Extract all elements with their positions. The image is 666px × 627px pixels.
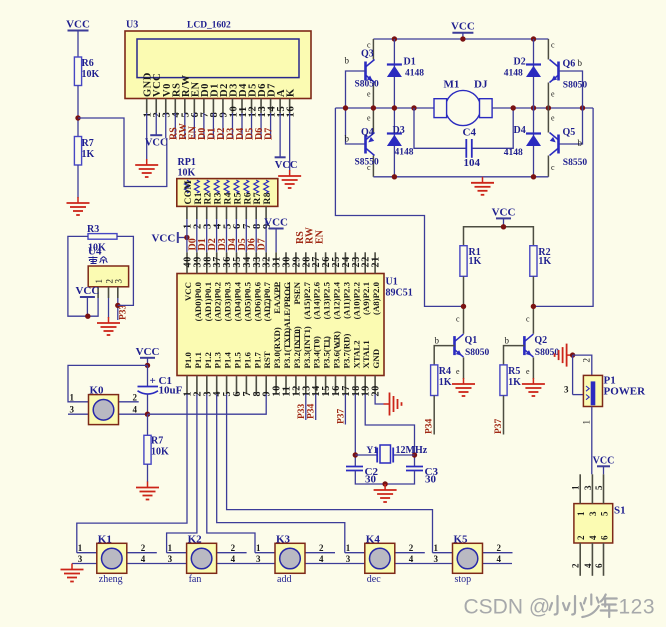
svg-text:e: e [367, 114, 371, 123]
svg-text:2: 2 [582, 358, 592, 363]
svg-text:VCC: VCC [264, 217, 288, 229]
svg-text:e: e [456, 367, 460, 376]
wire R7 to ground [77, 165, 79, 198]
RP1 pin 9 R8 [262, 180, 273, 229]
svg-text:10K: 10K [82, 69, 100, 80]
U1 pin 1 P1.0 [183, 352, 194, 397]
svg-text:b: b [578, 58, 583, 68]
svg-text:dec: dec [367, 574, 381, 585]
svg-text:1: 1 [346, 543, 351, 553]
svg-text:R5: R5 [233, 192, 243, 204]
svg-text:4148: 4148 [405, 69, 424, 79]
svg-text:3: 3 [114, 279, 124, 284]
svg-text:(A8)P2.0: (A8)P2.0 [371, 281, 381, 315]
svg-text:2: 2 [231, 543, 236, 553]
wire R1 to Q1 collector [463, 276, 465, 334]
U1 pin 11 P3.1(TXD) [282, 328, 293, 397]
U1 pin 15 P3.5(T1) [321, 336, 332, 397]
S1 pin 3 top [583, 474, 598, 516]
svg-text:P3.3(INT1): P3.3(INT1) [302, 326, 312, 368]
wire key bottom chain [72, 563, 512, 565]
wire LCD pin 6 stub / net label EN [187, 113, 198, 140]
svg-text:GND: GND [371, 349, 381, 369]
svg-text:4148: 4148 [504, 69, 523, 79]
wire R7 to ground [147, 464, 149, 482]
svg-text:S8550: S8550 [563, 158, 588, 168]
pushbutton K0 [70, 385, 138, 425]
pushbutton K4 [346, 533, 414, 585]
svg-text:R4: R4 [439, 366, 451, 377]
svg-text:1: 1 [168, 543, 173, 553]
svg-text:P3.2(INT0): P3.2(INT0) [292, 326, 302, 368]
RP1 pin 7 R6 [242, 180, 253, 229]
svg-text:4: 4 [133, 405, 138, 415]
svg-text:21: 21 [371, 256, 382, 268]
svg-text:R7: R7 [151, 436, 163, 447]
svg-text:K4: K4 [366, 533, 381, 545]
wire U4 pin3 net [117, 298, 119, 320]
node mid rail D2D4 [531, 105, 536, 110]
U1 pin 29 PSEN [291, 252, 302, 304]
U1 pin 31 EA/VPP [272, 252, 283, 313]
wire R3 right to U4 pin3 [117, 236, 133, 305]
node bottom rail D4 [531, 174, 536, 179]
svg-text:(AD6)P0.6: (AD6)P0.6 [252, 281, 262, 321]
svg-text:P3.1(TXD): P3.1(TXD) [282, 328, 292, 369]
wire LCD pin 10 stub / net label D3 [225, 113, 236, 140]
diode D4 4148 [533, 108, 535, 177]
svg-text:U3: U3 [126, 20, 138, 31]
svg-text:P1.2: P1.2 [203, 352, 213, 369]
power VCC at K0 [136, 346, 160, 366]
wire LCD pin 4 stub / net label RS [168, 113, 179, 140]
U1 pin 27 (A14)P2.6 [311, 252, 322, 319]
U1 pin 28 (A15)P2.7 [301, 252, 312, 319]
svg-text:1K: 1K [469, 256, 482, 267]
svg-text:ALE/PROG: ALE/PROG [282, 282, 292, 328]
svg-text:P37: P37 [336, 408, 346, 424]
svg-text:D3: D3 [393, 125, 405, 136]
wire RP1 pin 2 to U1 [196, 219, 198, 252]
svg-text:K1: K1 [98, 533, 112, 545]
svg-text:XTAL1: XTAL1 [361, 340, 371, 368]
ground H-bridge [471, 177, 494, 195]
wire U1 pin5 P1.4 to K5 [227, 394, 433, 553]
svg-text:S1: S1 [614, 505, 626, 517]
wire P1 pin2 [573, 355, 592, 375]
svg-text:(AD3)P0.3: (AD3)P0.3 [223, 281, 233, 321]
transistor Q3 S8050 [366, 60, 375, 83]
svg-text:c: c [456, 315, 460, 324]
wire K5 pin1 stub [433, 552, 453, 554]
wire mid rail right [492, 107, 593, 109]
svg-text:VCC: VCC [183, 282, 193, 301]
RP1 pin 4 R3 [212, 180, 223, 229]
node Q2 collector [531, 304, 536, 309]
diode D3 4148 [393, 108, 395, 177]
svg-text:P3.5(T1): P3.5(T1) [322, 336, 332, 369]
U1 pin 10 P3.0(RXD) [272, 327, 283, 396]
svg-text:1K: 1K [439, 377, 452, 388]
svg-text:P1.7: P1.7 [252, 352, 262, 369]
resistor R3 10K [88, 234, 117, 240]
U1 pin 6 P1.5 [232, 352, 243, 397]
svg-text:(AD5)P0.5: (AD5)P0.5 [242, 281, 252, 321]
wire driver VCC rail [464, 227, 534, 246]
svg-text:CSDN @: CSDN @ [464, 596, 551, 619]
svg-text:6: 6 [594, 563, 604, 568]
svg-text:C4: C4 [463, 127, 477, 139]
node U4 pin3 [115, 303, 120, 308]
svg-text:Q4: Q4 [361, 127, 374, 138]
svg-text:PSEN: PSEN [292, 281, 302, 304]
svg-text:R1: R1 [194, 192, 204, 204]
svg-text:4: 4 [497, 554, 502, 564]
LCD pin 6 EN [190, 81, 201, 117]
node mid rail D1D3 [392, 105, 397, 110]
svg-text:10K: 10K [178, 168, 196, 179]
svg-text:POWER: POWER [604, 386, 647, 398]
svg-text:3: 3 [78, 554, 83, 564]
LCD pin 3 V0 [162, 83, 173, 117]
svg-text:(AD4)P0.4: (AD4)P0.4 [233, 281, 243, 321]
ground Q2 emitter [522, 378, 545, 396]
RP1 pin 5 R4 [222, 180, 233, 229]
ground Q1 emitter [452, 378, 475, 396]
svg-text:P3.0(RXD): P3.0(RXD) [272, 327, 282, 368]
svg-text:VCC: VCC [75, 285, 99, 297]
svg-text:123: 123 [619, 596, 656, 619]
U1 pin 26 (A13)P2.5 [321, 252, 332, 319]
svg-text:P3.6(WR): P3.6(WR) [332, 331, 342, 368]
svg-text:P33: P33 [297, 403, 307, 419]
S1 pin 6 bottom [594, 535, 609, 576]
U1 pin 33 (AD6)P0.6 [252, 252, 263, 321]
svg-text:K5: K5 [454, 533, 469, 545]
wire R4 to net P34 [433, 396, 435, 435]
svg-text:P1.0: P1.0 [183, 352, 193, 369]
svg-text:R5: R5 [508, 366, 520, 377]
wire LCD pin 5 stub / net label RW [178, 113, 189, 140]
svg-text:30: 30 [425, 474, 437, 486]
svg-text:P3.4(T0): P3.4(T0) [312, 336, 322, 369]
wire Q3 Q4 base link [346, 71, 366, 144]
svg-text:R8: R8 [263, 192, 273, 204]
svg-text:1: 1 [571, 485, 581, 490]
svg-text:4148: 4148 [504, 148, 523, 158]
diode D1 4148 [393, 39, 395, 108]
svg-text:VCC: VCC [593, 455, 615, 466]
svg-text:stop: stop [455, 574, 472, 585]
wire H-bridge bottom rail [373, 176, 548, 178]
LCD pin 11 D4 [238, 83, 249, 118]
U1 pin 38 (AD1)P0.1 [202, 252, 213, 321]
wire H-bridge top rail [373, 38, 548, 40]
svg-text:zheng: zheng [99, 574, 123, 585]
node top rail D1 [392, 36, 397, 41]
LCD pin 9 D2 [219, 83, 230, 117]
wire LCD pin 14 stub / net label D7 [264, 113, 275, 140]
wire RP1 pin 9 to U1 [265, 219, 267, 252]
svg-text:Q2: Q2 [534, 335, 547, 346]
motor M1 DJ [434, 79, 492, 126]
svg-text:VCC: VCC [151, 233, 175, 245]
wire RP1 pin 5 to U1 [226, 219, 228, 252]
watermark chinese glyphs [550, 595, 617, 618]
node V0 divider junction [75, 115, 80, 120]
svg-text:S8050: S8050 [535, 348, 560, 358]
wire P1 pin3 [572, 355, 574, 395]
svg-text:Q1: Q1 [465, 335, 478, 346]
ground below crystal caps [374, 484, 397, 502]
svg-text:VCC: VCC [492, 206, 516, 218]
node crystal ground [382, 481, 387, 486]
power VCC (LCD contrast divider) [66, 19, 90, 58]
svg-text:1: 1 [78, 543, 83, 553]
LCD pin 12 D5 [247, 83, 258, 117]
svg-text:VCC: VCC [451, 21, 475, 33]
power VCC at LCD pin15 [275, 157, 298, 171]
wire R6 to R7 [77, 86, 79, 137]
svg-text:e: e [526, 367, 530, 376]
svg-text:c: c [526, 315, 530, 324]
hall sensor U4 body [88, 246, 129, 287]
node mid rail C4 [411, 105, 416, 110]
wire U1 pin17 stub / net label P37 [344, 394, 346, 424]
node top rail D2 [531, 36, 536, 41]
LCD pin 4 RS [171, 83, 182, 118]
wire Q1 emitter to ground [463, 357, 465, 379]
transistor Q6 S8050 [550, 60, 559, 83]
ground U4 pin2 [97, 317, 120, 335]
power VCC H-bridge [451, 21, 475, 39]
RP1 pin 8 R7 [252, 180, 263, 229]
svg-text:e: e [551, 114, 555, 123]
svg-text:R3: R3 [87, 224, 99, 235]
transistor Q4 S8550 [366, 133, 375, 156]
svg-text:LCD_1602: LCD_1602 [187, 21, 231, 31]
wire RP1 pin 8 to U1 [255, 219, 257, 252]
svg-text:RST: RST [262, 351, 272, 368]
wire right drive down to Q2 [533, 108, 593, 306]
U1 pin 24 (A11)P2.3 [341, 252, 352, 319]
svg-text:4148: 4148 [395, 148, 414, 158]
node top rail VCC [460, 36, 465, 41]
wire K1 pin2 stub [127, 552, 157, 554]
svg-text:2: 2 [576, 535, 586, 540]
svg-text:1: 1 [256, 543, 261, 553]
svg-text:(A12)P2.4: (A12)P2.4 [332, 281, 342, 319]
svg-text:fan: fan [189, 574, 202, 585]
wire LCD pin16 K to ground [289, 113, 291, 171]
svg-text:P34: P34 [425, 418, 435, 434]
pushbutton K2 [168, 533, 236, 585]
svg-text:3: 3 [168, 554, 173, 564]
svg-text:D1: D1 [404, 57, 416, 68]
RP1 pin 3 R2 [203, 180, 214, 229]
wire Q5 emitter [547, 156, 549, 177]
U1 pin 3 P1.2 [202, 352, 213, 397]
svg-text:(A10)P2.2: (A10)P2.2 [351, 281, 361, 319]
ground at LCD pin1 [135, 159, 158, 177]
svg-text:(A15)P2.7: (A15)P2.7 [302, 281, 312, 319]
wire U1 pin2 P1.1 to K2 [167, 394, 197, 553]
wire RST node to U1 pin9 [148, 394, 267, 414]
svg-text:Q6: Q6 [563, 59, 576, 70]
S1 pin 5 top [594, 474, 609, 516]
svg-text:R6: R6 [243, 192, 253, 204]
svg-text:2: 2 [571, 563, 581, 568]
wire K3 pin2 stub [305, 552, 335, 554]
svg-text:b: b [345, 56, 350, 66]
svg-text:D7: D7 [264, 128, 275, 140]
svg-text:1K: 1K [508, 377, 521, 388]
svg-text:(A14)P2.6: (A14)P2.6 [312, 281, 322, 319]
svg-text:b: b [578, 138, 583, 148]
svg-text:1: 1 [70, 392, 75, 402]
svg-text:1: 1 [576, 511, 586, 516]
svg-text:3: 3 [434, 554, 439, 564]
svg-text:2: 2 [141, 543, 146, 553]
svg-text:R6: R6 [82, 58, 94, 69]
U1 pin 8 P1.7 [252, 352, 263, 397]
wire R5 to net P37 [503, 396, 505, 435]
wire LCD pin1 GND down [146, 113, 148, 160]
svg-text:P34: P34 [307, 403, 317, 419]
svg-text:4: 4 [588, 535, 598, 540]
node mid rail base r [580, 105, 585, 110]
U1 pin 19 XTAL1 [361, 340, 372, 396]
U1 pin 30 ALE/PROG [282, 252, 293, 328]
wire Q3 emitter to mid rail [372, 83, 374, 109]
svg-text:VCC: VCC [136, 346, 160, 358]
svg-text:e: e [367, 90, 371, 99]
svg-text:S8050: S8050 [355, 80, 380, 90]
wire Q6 collector [547, 39, 549, 60]
crystal Y1 12MHz [355, 445, 427, 463]
svg-text:VCC: VCC [275, 160, 298, 171]
LCD pin 14 D7 [266, 83, 277, 117]
node mid rail base [343, 105, 348, 110]
svg-text:D2: D2 [514, 57, 526, 68]
wire LCD pin 13 stub / net label D6 [254, 113, 265, 140]
wire U1 pin1 P1.0 to K1 [77, 394, 187, 553]
svg-text:2: 2 [133, 392, 138, 402]
U1 pin name overlines [270, 282, 339, 347]
resistor R7 1K [74, 137, 81, 166]
svg-text:6: 6 [599, 535, 609, 540]
capacitor C4 104 [414, 108, 513, 169]
power VCC at S1 [593, 455, 615, 474]
wire Q6 Q5 base link [559, 71, 583, 144]
svg-text:16: 16 [285, 105, 296, 117]
wire mid rail left [335, 107, 434, 109]
LCD pin 2 VCC [152, 73, 163, 118]
U1 pin 39 (AD0)P0.0 [192, 252, 203, 321]
wire K3 pin1 stub [255, 552, 275, 554]
svg-text:Q3: Q3 [361, 49, 374, 60]
svg-text:VCC: VCC [145, 138, 168, 149]
U1 pin 12 P3.2(INT0) [291, 326, 302, 396]
power VCC at U1 pin31 EA/VPP [264, 217, 288, 253]
power VCC at LCD pin2 [145, 135, 168, 149]
U1 pin 21 (A8)P2.0 [371, 252, 382, 315]
RP1 pin 6 R5 [232, 180, 243, 229]
wire K5 pin2 stub [483, 552, 513, 554]
svg-text:104: 104 [464, 157, 481, 169]
svg-text:3: 3 [583, 485, 593, 490]
resistor R1 1K [460, 246, 467, 277]
wire RP1 pin 6 to U1 [235, 219, 237, 252]
ground at P1 [555, 344, 573, 367]
svg-text:P1.6: P1.6 [242, 352, 252, 369]
U1 pin 18 XTAL2 [351, 340, 362, 397]
svg-text:S8050: S8050 [465, 348, 490, 358]
svg-text:P3.7(RD): P3.7(RD) [341, 333, 351, 368]
resistor R5 1K [500, 365, 507, 396]
svg-text:c: c [551, 163, 555, 172]
transistor Q5 S8550 [550, 133, 559, 156]
wire U4 pin2 to ground [108, 298, 110, 318]
svg-text:4: 4 [409, 554, 414, 564]
LCD pin 8 D1 [209, 83, 220, 117]
wire Q2 base to R5 [504, 346, 525, 365]
wire R3 left to VCC node [68, 236, 88, 316]
wire K0 pin4 to RST node [118, 413, 147, 415]
node mid rail C4r [511, 105, 516, 110]
RP1 pin 1 COM [183, 180, 194, 229]
capacitor C2 30 [346, 466, 378, 486]
svg-text:(A9)P2.1: (A9)P2.1 [361, 282, 371, 315]
svg-text:D4: D4 [514, 125, 526, 136]
connector P1 POWER body [583, 375, 646, 407]
resistor pack RP1 10K body [177, 179, 278, 207]
svg-text:3: 3 [346, 554, 351, 564]
wire Q3 collector [372, 39, 374, 60]
svg-text:R4: R4 [224, 192, 234, 204]
resistor R4 1K [431, 365, 438, 396]
svg-text:e: e [551, 90, 555, 99]
svg-text:(AD1)P0.1: (AD1)P0.1 [203, 282, 213, 321]
wire K1 pin1 stub [77, 552, 97, 554]
LCD pin 7 D0 [200, 83, 211, 117]
wire divider to LCD V0 pin [78, 118, 167, 187]
RP1 pin 2 R1 [193, 180, 204, 229]
ground below R7 [67, 197, 90, 215]
U1 pin 2 P1.1 [192, 352, 203, 396]
node U4 VCC junction [85, 314, 90, 319]
svg-text:12MHz: 12MHz [396, 445, 428, 456]
svg-text:P1.3: P1.3 [213, 352, 223, 369]
svg-text:R7: R7 [253, 192, 263, 204]
wire VCC to RP1 pin1 [179, 237, 187, 239]
wire LCD pin2 to VCC [155, 113, 157, 135]
svg-text:DJ: DJ [474, 79, 488, 91]
capacitor C3 30 [406, 466, 438, 486]
wire LCD pin 9 stub / net label D2 [216, 113, 227, 140]
U1 pin 17 P3.7(RD) [341, 333, 352, 396]
svg-text:Q5: Q5 [563, 127, 576, 138]
ground at K1 [61, 564, 84, 582]
LCD pin 1 GND [143, 72, 154, 117]
svg-text:EN: EN [315, 229, 326, 244]
wire K0 pin2 stub [118, 401, 138, 403]
svg-text:4: 4 [583, 563, 593, 568]
capacitor C1 10uF polarized [138, 365, 183, 414]
svg-text:K2: K2 [188, 533, 203, 545]
svg-text:RP1: RP1 [178, 157, 196, 168]
wire RP1 pin 3 to U1 [206, 219, 208, 252]
